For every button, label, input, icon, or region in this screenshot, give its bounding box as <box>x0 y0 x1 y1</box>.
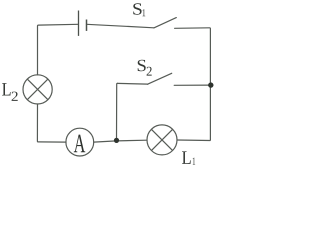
label S1 <box>133 3 145 16</box>
label L1 <box>182 151 195 164</box>
switch S2 <box>148 73 172 84</box>
label S2 <box>138 60 152 76</box>
wire riser from bottom junction up to S2 branch <box>117 83 118 140</box>
lamp L2 <box>23 75 52 104</box>
battery <box>79 11 87 36</box>
switch S1 <box>154 18 177 28</box>
wire L2 bottom to bottom-left corner to ammeter <box>37 104 66 142</box>
wire S2 branch left horizontal <box>117 82 147 85</box>
junction dot right <box>208 82 213 87</box>
wire ammeter to junction to lamp L1 <box>94 140 147 142</box>
wire S2 right contact to right junction <box>174 84 210 86</box>
label L2 <box>2 83 18 101</box>
wire S1 right contact to top-right corner and right vertical down <box>175 28 211 141</box>
lamp L1 <box>147 125 177 155</box>
wire left vertical (top-left corner down to lamp L2) <box>38 24 79 75</box>
ammeter A <box>66 128 94 156</box>
junction dot bottom <box>114 138 119 143</box>
wire battery to switch S1 <box>87 24 154 28</box>
